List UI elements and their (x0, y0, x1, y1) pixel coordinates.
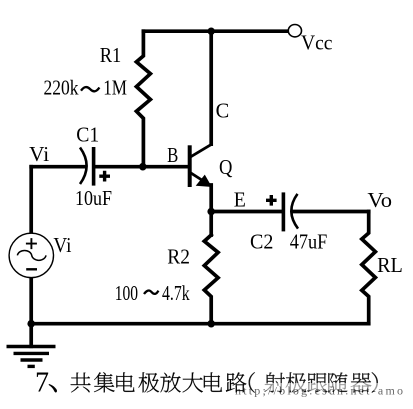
resistor R1 (zigzag with leads) (136, 31, 150, 167)
transistor Q emitter stroke (190, 172, 207, 183)
Vcc terminal circle (288, 25, 301, 37)
wire: input node to C1 left plate (31, 165, 85, 169)
svg-text:4.7k: 4.7k (162, 281, 190, 305)
wire: C2 right plate to output node (293, 210, 369, 214)
svg-text:R1: R1 (100, 43, 122, 67)
svg-text:Q: Q (219, 155, 232, 179)
svg-text:100: 100 (115, 281, 138, 305)
svg-text:1M: 1M (103, 76, 127, 100)
transistor Q emitter arrowhead (197, 176, 211, 187)
svg-text:C: C (216, 99, 230, 123)
ground symbol bars (7, 347, 56, 367)
AC source Vi circle (9, 233, 53, 277)
svg-text:B: B (167, 143, 178, 167)
wire: emitter node to C2 left plate (211, 210, 282, 214)
junction dot: ground tap at bottom rail (27, 320, 35, 328)
capacitor C1 straight plate (92, 147, 96, 186)
svg-text:RL: RL (377, 253, 403, 277)
wire: bottom ground rail (31, 322, 369, 326)
resistor RL (zigzag with leads) (362, 212, 376, 324)
svg-text:Vo: Vo (367, 188, 392, 212)
capacitor C2 polarity plus (266, 195, 277, 206)
capacitor C1 curved plate (80, 148, 87, 185)
junction dot: base node B (139, 163, 147, 171)
wire: C1 right plate to base (95, 165, 188, 169)
resistor R2 (zigzag with lead to bottom rail) (204, 235, 218, 324)
AC source minus sign (26, 268, 37, 270)
svg-text:Vcc: Vcc (301, 31, 333, 55)
svg-text:10uF: 10uF (75, 186, 112, 210)
transistor Q collector stroke (190, 144, 211, 157)
junction dot: R2 at bottom rail (207, 320, 215, 328)
caption: 、共集电极放大电路 (49, 384, 57, 392)
ground stem (29, 324, 33, 347)
watermark overlay band (262, 383, 378, 391)
junction dot: emitter node E (207, 208, 215, 216)
AC source sine wave (17, 250, 46, 260)
svg-text:Vi: Vi (53, 233, 71, 257)
junction dot: collector at Vcc rail (208, 28, 215, 35)
wire: emitter vertical into R2 (209, 185, 213, 235)
svg-text:C2: C2 (250, 230, 273, 254)
caption (watermarked): （射极跟随器） (249, 372, 255, 393)
wire: collector vertical from rail to transistor (209, 31, 213, 144)
svg-text:220k: 220k (44, 75, 79, 99)
svg-text:http;//blog.csdn.net-amo: http;//blog.csdn.net-amo (235, 384, 403, 398)
capacitor C2 curved plate (291, 194, 298, 229)
svg-text:7: 7 (35, 368, 49, 399)
transistor Q base bar (188, 145, 192, 187)
wire: left vertical below Vi source (29, 277, 33, 324)
wire: Vcc rail from R1 top to Vcc terminal (143, 29, 288, 33)
svg-text:C1: C1 (76, 122, 99, 146)
capacitor C1 polarity plus (99, 171, 110, 182)
svg-text:R2: R2 (167, 244, 190, 268)
svg-text:Vi: Vi (29, 142, 49, 166)
AC source plus sign (26, 238, 37, 249)
capacitor C2 straight plate (282, 192, 286, 231)
svg-text:E: E (234, 188, 246, 212)
wire: left vertical above Vi source (29, 167, 33, 234)
svg-text:47uF: 47uF (290, 230, 328, 254)
